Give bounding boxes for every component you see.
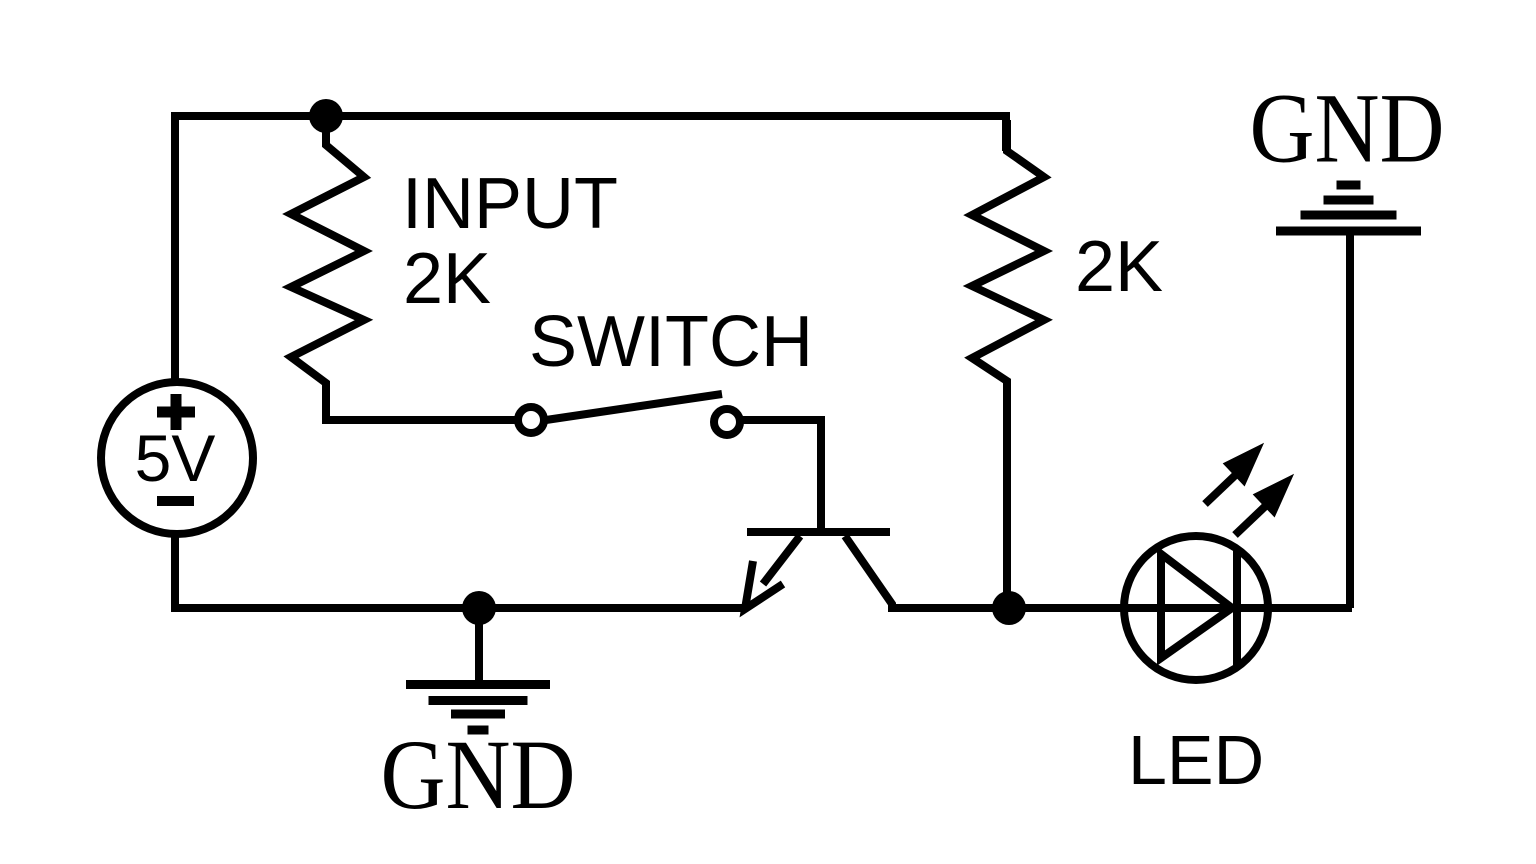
LED D1 [1124,447,1290,680]
wire LED cathode to ground riser [1346,233,1354,608]
wire top rail from 5V+ to 2K resistor [175,116,1006,380]
node B: ground junction [462,591,496,625]
svg-text:GND: GND [1250,72,1445,183]
label GND bottom [381,719,576,830]
label GND top [1250,72,1445,183]
ground symbol top (inverted) [1276,185,1421,231]
wire resistor R1 bottom to switch left terminal [326,410,518,420]
node C: output junction [992,591,1026,625]
switch SW1 [518,394,740,435]
wire switch right terminal to transistor base [740,420,821,536]
wire output node through LED anode [1009,604,1352,612]
voltage source V1 5V [101,382,253,534]
svg-text:SWITCH: SWITCH [529,302,813,382]
svg-text:2K: 2K [403,239,491,319]
node A: top rail junction [309,99,343,133]
transistor Q1 [745,532,1000,609]
svg-text:INPUT: INPUT [402,164,618,244]
resistor R1 INPUT 2K [291,120,364,414]
svg-text:LED: LED [1128,721,1264,799]
wire 5V- to bottom rail [171,532,179,612]
svg-text:2K: 2K [1075,227,1163,307]
resistor R2 2K [972,120,1044,608]
wire bottom rail to emitter [175,604,745,612]
ground symbol bottom [406,608,550,730]
svg-text:5V: 5V [135,421,216,495]
svg-text:GND: GND [381,719,576,830]
